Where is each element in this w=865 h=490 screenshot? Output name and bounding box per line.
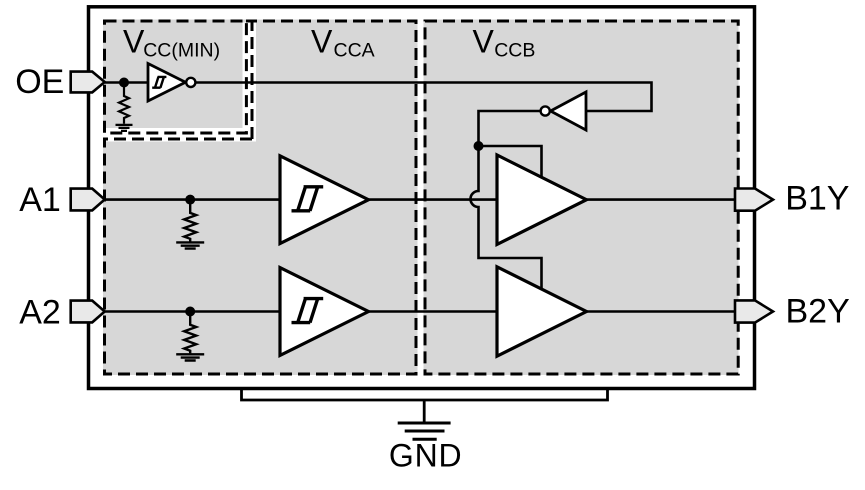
ground symbol GND — [398, 423, 451, 439]
pin A2 — [71, 301, 105, 323]
resistor R3 (A2 pulldown) — [184, 312, 196, 354]
svg-text:OE: OE — [15, 63, 64, 101]
wire enable to B1 buffer — [479, 146, 542, 178]
wire A1 schmitt output to B1 buffer — [369, 198, 498, 201]
svg-text:A1: A1 — [19, 181, 61, 219]
wire U4 output to enable node — [479, 111, 540, 146]
wire OE pin to inverter input — [105, 81, 148, 84]
outer device box — [89, 7, 755, 389]
wire A2 schmitt output to B2 buffer — [369, 310, 498, 313]
junction dot enable node — [474, 141, 484, 151]
wire B2 buffer output to B2Y pin — [587, 310, 736, 313]
svg-text:B1Y: B1Y — [785, 180, 849, 218]
schmitt buffer U3 (A2) — [280, 268, 369, 356]
ground for R3 — [176, 354, 204, 360]
GND stem — [423, 400, 426, 422]
inverter U4 (enable, VCCB) — [551, 92, 587, 130]
schmitt inverter U1 (VCC(MIN)) — [148, 64, 186, 102]
wire A1 pin to schmitt buffer — [105, 198, 280, 201]
schmitt buffer U2 (A1) — [280, 156, 369, 244]
dashed box VCC(MIN) — [105, 21, 247, 133]
output buffer U6 (B2) — [497, 267, 587, 356]
svg-text:V: V — [311, 24, 333, 60]
resistor R1 (OE pulldown) — [119, 83, 129, 124]
U3 hysteresis glyph — [292, 299, 324, 323]
junction dot A1 — [185, 195, 195, 205]
svg-text:CCA: CCA — [334, 40, 375, 62]
pin A1 — [71, 189, 105, 211]
svg-text:GND: GND — [389, 438, 463, 474]
svg-text:CC(MIN): CC(MIN) — [143, 40, 220, 62]
junction dot A2 — [185, 307, 195, 317]
U1 hysteresis glyph — [152, 77, 166, 88]
svg-text:CCB: CCB — [494, 40, 535, 62]
supply region gray background — [103, 20, 739, 376]
dashed box VCCA (notched) — [105, 21, 417, 374]
wire B1 buffer output to B1Y pin — [587, 198, 736, 201]
svg-text:V: V — [473, 24, 495, 60]
U2 hysteresis glyph — [292, 187, 324, 211]
pin OE — [71, 72, 105, 93]
U4 input bubble — [541, 106, 550, 115]
pin B2Y — [735, 300, 773, 322]
pin B1Y — [735, 189, 773, 211]
resistor R2 (A1 pulldown) — [184, 200, 196, 242]
ground for R2 — [176, 242, 204, 248]
wire enable to B2 buffer with hop over A1 line — [471, 146, 542, 290]
svg-text:A2: A2 — [19, 294, 61, 332]
dashed box VCCB — [425, 21, 738, 374]
svg-text:V: V — [123, 24, 145, 60]
output buffer U5 (B1) — [497, 155, 587, 244]
white gap band below VCC(MIN) box — [99, 128, 256, 142]
ground for R1 — [116, 125, 133, 131]
wire A2 pin to schmitt buffer — [105, 310, 280, 313]
wire OE net: inverter output across to right then down to U4 input — [196, 83, 652, 112]
junction dot OE — [119, 78, 129, 88]
white gap strip right of VCC(MIN) box — [243, 23, 257, 142]
GND bus bracket — [242, 389, 608, 401]
white gap strip between VCCA and VCCB — [418, 20, 424, 376]
U1 output bubble — [186, 78, 195, 87]
svg-text:B2Y: B2Y — [786, 293, 850, 331]
